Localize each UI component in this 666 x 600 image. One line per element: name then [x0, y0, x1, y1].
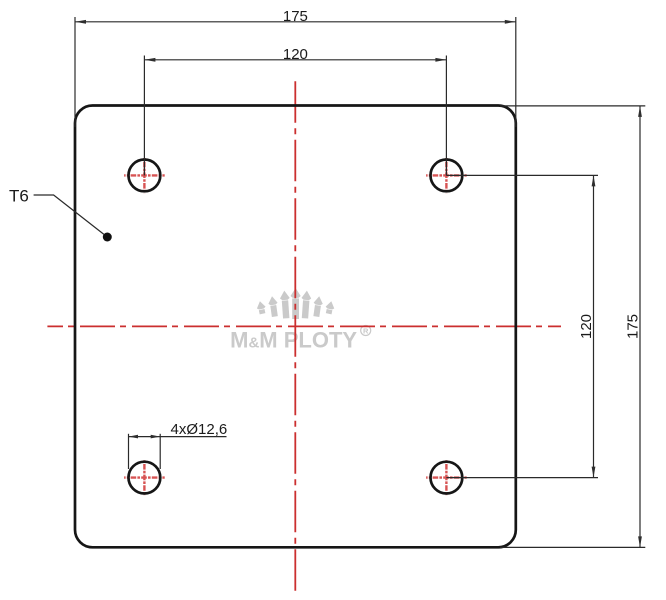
- svg-text:175: 175: [624, 314, 641, 339]
- svg-text:T6: T6: [9, 186, 29, 205]
- svg-text:175: 175: [283, 8, 308, 25]
- svg-text:120: 120: [283, 46, 308, 63]
- svg-text:4xØ12,6: 4xØ12,6: [171, 421, 228, 438]
- svg-text:120: 120: [578, 314, 595, 339]
